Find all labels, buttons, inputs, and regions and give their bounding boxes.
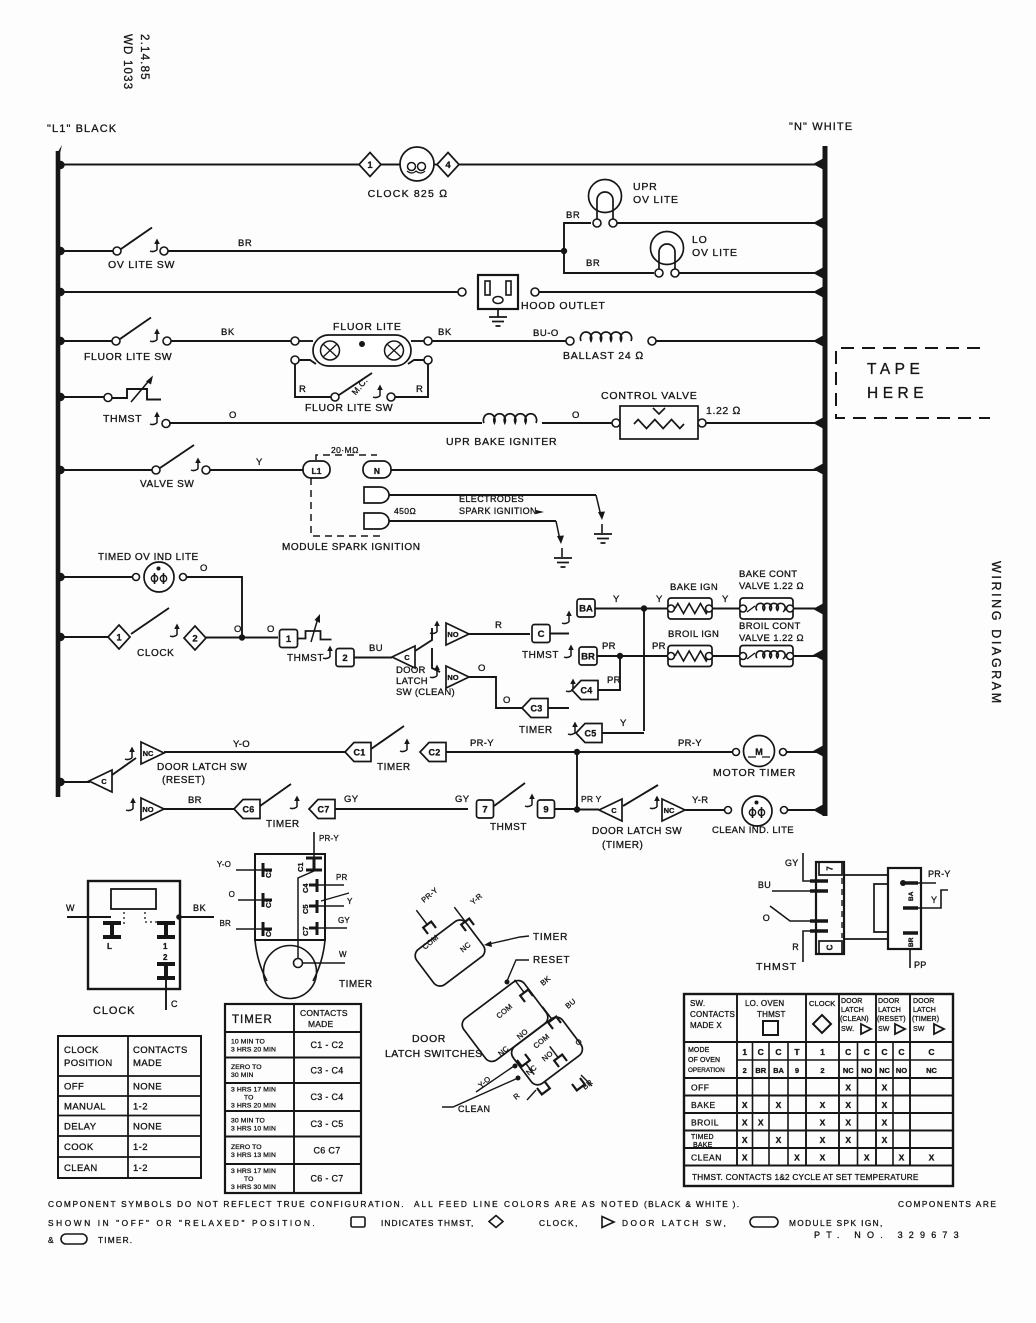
label DOOR LATCH SW RESET xyxy=(157,762,247,786)
svg-text:CLOCK 825 Ω: CLOCK 825 Ω xyxy=(368,188,449,200)
svg-text:BK: BK xyxy=(438,327,452,338)
svg-text:C3 - C4: C3 - C4 xyxy=(310,1065,343,1075)
clock contact L xyxy=(103,923,121,951)
svg-text:OV LITE: OV LITE xyxy=(692,247,738,259)
svg-text:MADE X: MADE X xyxy=(690,1021,722,1030)
label TIMER c3 xyxy=(519,725,553,736)
svg-text:THMST: THMST xyxy=(103,413,142,425)
clock motor (CLOCK 825 ohm) xyxy=(400,147,434,181)
svg-text:C2: C2 xyxy=(428,748,440,758)
hook NC reset xyxy=(125,747,135,760)
label GY 7 xyxy=(455,794,470,805)
svg-text:CONTACTS: CONTACTS xyxy=(133,1045,188,1056)
label BR lo xyxy=(586,258,600,269)
reset latch tab BU xyxy=(539,997,578,1029)
svg-text:COMPONENT SYMBOLS DO NOT REFLE: COMPONENT SYMBOLS DO NOT REFLECT TRUE CO… xyxy=(48,1199,405,1209)
svg-text:C: C xyxy=(611,806,617,815)
wire L1 to reset C xyxy=(60,781,90,783)
svg-text:MODULE SPARK IGNITION: MODULE SPARK IGNITION xyxy=(282,542,421,553)
door latch sw clean (C triangle) xyxy=(392,646,415,668)
label R left xyxy=(299,384,306,395)
svg-text:CLOCK: CLOCK xyxy=(137,648,174,659)
notes line 3 xyxy=(48,1234,133,1245)
thmst wire PR-Y xyxy=(918,869,951,883)
timer contact C1 (hex) xyxy=(345,743,371,762)
bus L1 (left feed line) xyxy=(56,145,62,797)
svg-text:PT. NO. 329673: PT. NO. 329673 xyxy=(814,1230,965,1240)
svg-text:BAKE: BAKE xyxy=(693,1142,713,1149)
wire bake valve to N bus xyxy=(793,608,823,610)
svg-text:C: C xyxy=(898,1047,904,1057)
svg-text:NC: NC xyxy=(926,1066,937,1075)
label LO OV LITE xyxy=(692,234,738,259)
label O c3 xyxy=(503,695,511,706)
svg-text:TIMER: TIMER xyxy=(232,1014,273,1026)
svg-text:C: C xyxy=(928,1047,934,1057)
wire NC to C1 xyxy=(164,751,345,753)
hook C2 xyxy=(400,739,410,752)
svg-text:C5: C5 xyxy=(301,904,310,914)
label UPR BAKE IGNITER xyxy=(446,436,557,448)
svg-text:THMST: THMST xyxy=(757,1010,786,1019)
svg-text:THMST. CONTACTS 1&2 CYCLE AT S: THMST. CONTACTS 1&2 CYCLE AT SET TEMPERA… xyxy=(692,1173,919,1182)
svg-text:C: C xyxy=(775,1047,781,1057)
timer component body xyxy=(255,854,325,999)
label CLEAN pointer xyxy=(442,1076,521,1115)
junction left bus y577 xyxy=(56,573,64,581)
lamp UPR OV LITE xyxy=(589,180,622,228)
label FLUOR LITE SW left xyxy=(84,351,172,363)
svg-text:1-2: 1-2 xyxy=(133,1163,148,1174)
hook 9 xyxy=(525,794,535,807)
wire 9 to junction xyxy=(554,808,577,810)
svg-text:CLEAN: CLEAN xyxy=(691,1152,722,1162)
sheet id text 2.14.85 WD 1033 xyxy=(121,34,150,90)
label MODULE SPARK IGNITION xyxy=(282,542,421,553)
svg-text:(CLEAN): (CLEAN) xyxy=(840,1016,869,1023)
hook NO2 xyxy=(430,665,440,678)
svg-text:(TIMER): (TIMER) xyxy=(912,1016,939,1023)
door latch timer switch body xyxy=(412,917,488,989)
svg-text:GY: GY xyxy=(344,794,359,805)
timer contact C4 (hex) xyxy=(572,681,598,700)
clean latch tab R xyxy=(512,1082,550,1102)
svg-text:C: C xyxy=(845,1047,851,1057)
svg-text:Y-O: Y-O xyxy=(217,860,231,869)
svg-text:ALL FEED LINE COLORS ARE AS NO: ALL FEED LINE COLORS ARE AS NOTED xyxy=(414,1199,640,1209)
svg-text:BAKE IGN: BAKE IGN xyxy=(670,582,718,593)
svg-text:2: 2 xyxy=(163,953,168,962)
wire NO1 to C box xyxy=(469,633,530,635)
wire tee up to UPR lamp line xyxy=(564,223,591,251)
label TIMED OV IND LITE xyxy=(98,552,199,563)
junction left bus y165 xyxy=(56,161,64,169)
label BR upr xyxy=(566,210,580,221)
svg-text:TIMED OV IND LITE: TIMED OV IND LITE xyxy=(98,552,199,563)
svg-text:VALVE 1.22 Ω: VALVE 1.22 Ω xyxy=(739,633,804,644)
svg-text:GY: GY xyxy=(785,858,799,868)
module electrode output 2 xyxy=(364,513,389,529)
wire fluor loop right xyxy=(395,364,428,397)
label BROIL CONT VALVE xyxy=(739,621,804,644)
thmst contact 7 (box) xyxy=(477,800,494,818)
ground electrode 2 xyxy=(554,548,572,567)
svg-text:PR Y: PR Y xyxy=(581,794,602,804)
svg-text:WD 1033: WD 1033 xyxy=(121,34,133,90)
switch 7-9 blade xyxy=(494,783,525,806)
svg-text:X: X xyxy=(845,1135,851,1145)
svg-text:C3 - C5: C3 - C5 xyxy=(310,1119,343,1129)
wire motor to N bus xyxy=(786,751,823,753)
svg-text:7: 7 xyxy=(826,866,835,871)
wire LO lamp to N bus xyxy=(679,272,823,274)
svg-text:X: X xyxy=(776,1135,782,1145)
svg-text:NC: NC xyxy=(143,749,154,758)
thmst comp right block xyxy=(874,868,921,949)
svg-text:MANUAL: MANUAL xyxy=(64,1101,106,1112)
svg-text:DOOR LATCH SW: DOOR LATCH SW xyxy=(592,826,682,837)
svg-text:PR: PR xyxy=(652,641,666,652)
timer wire PR-Y top xyxy=(314,832,339,857)
svg-text:X: X xyxy=(742,1135,748,1145)
svg-text:LATCH: LATCH xyxy=(396,676,428,687)
svg-text:X: X xyxy=(882,1100,888,1110)
wire clock2 to node O xyxy=(206,637,278,639)
timer latch pointer xyxy=(484,936,529,947)
wire VALVE SW to L1 terminal xyxy=(210,469,303,471)
timer latch label COM xyxy=(421,933,441,952)
junction left bus y292 xyxy=(56,288,64,296)
spark gap arrow 1 xyxy=(596,495,605,520)
svg-text:Y: Y xyxy=(722,594,729,605)
thmst wire R xyxy=(792,931,810,962)
svg-text:X: X xyxy=(882,1082,888,1092)
label PR-Y motor xyxy=(678,738,702,749)
hook C5 xyxy=(568,722,578,735)
wire C5 to bake junction xyxy=(602,732,644,734)
svg-text:3 HRS 30 MIN: 3 HRS 30 MIN xyxy=(231,1184,276,1191)
svg-text:(RESET): (RESET) xyxy=(162,775,206,786)
junction right bus y810 xyxy=(813,805,823,816)
timer contact C3 comp xyxy=(229,890,273,908)
svg-text:N: N xyxy=(374,466,380,476)
label 1.22 ohm xyxy=(706,405,741,417)
thmst comp left block xyxy=(816,862,844,954)
label 450 ohm xyxy=(394,506,416,516)
svg-text:OF OVEN: OF OVEN xyxy=(688,1057,720,1064)
junction left bus y397 xyxy=(56,393,64,401)
svg-text:2: 2 xyxy=(342,653,347,664)
hook clock 2 xyxy=(170,624,180,637)
svg-text:UPR BAKE IGNITER: UPR BAKE IGNITER xyxy=(446,436,557,448)
svg-text:X: X xyxy=(820,1117,826,1127)
svg-text:X: X xyxy=(776,1100,782,1110)
clock position table xyxy=(58,1036,201,1178)
svg-text:9: 9 xyxy=(795,1066,799,1075)
svg-text:L1: L1 xyxy=(312,466,322,476)
svg-text:1: 1 xyxy=(367,160,373,171)
wire clock 1 to motor xyxy=(381,164,400,166)
svg-text:LATCH: LATCH xyxy=(913,1007,936,1014)
svg-text:Y: Y xyxy=(347,897,353,906)
label TIMER pointer xyxy=(533,932,568,943)
clock contact 2 (diamond) xyxy=(184,626,206,650)
label DOOR LATCH SWITCHES xyxy=(385,1033,483,1060)
junction right bus y469 xyxy=(813,464,823,475)
label Y-R xyxy=(692,795,708,806)
wire C box to stub xyxy=(550,633,569,635)
reset latch tab NC xyxy=(517,1054,538,1078)
label BK right xyxy=(438,327,452,338)
label CLOCK comp xyxy=(93,1005,135,1017)
svg-text:MADE: MADE xyxy=(133,1058,162,1069)
svg-text:ZERO TO: ZERO TO xyxy=(231,1064,262,1071)
svg-text:1: 1 xyxy=(820,1047,825,1057)
svg-text:C6: C6 xyxy=(242,805,254,815)
thmst contact 9 (box) xyxy=(538,800,555,818)
node BR tee xyxy=(561,248,567,254)
svg-text:NO: NO xyxy=(447,673,458,682)
ground electrode 1 xyxy=(594,524,612,543)
svg-text:3 HRS 17 MIN: 3 HRS 17 MIN xyxy=(231,1168,276,1175)
node bake junction xyxy=(641,605,647,611)
svg-text:OFF: OFF xyxy=(64,1082,84,1093)
svg-text:BALLAST 24 Ω: BALLAST 24 Ω xyxy=(563,350,644,362)
label O 2 xyxy=(572,410,580,421)
switch clock blade xyxy=(131,608,169,634)
svg-text:OV LITE: OV LITE xyxy=(633,194,679,206)
wire electrode 1 xyxy=(389,494,596,496)
wire FLUOR LITE SW to tube xyxy=(171,340,291,342)
svg-text:CLOCK,: CLOCK, xyxy=(539,1218,579,1228)
svg-text:TIMER: TIMER xyxy=(519,725,553,736)
svg-text:O: O xyxy=(200,563,208,574)
svg-text:Y: Y xyxy=(613,594,620,605)
wire NC to clean lamp xyxy=(685,809,724,811)
reset latch label NC xyxy=(496,1044,511,1058)
wire clock 4 to N bus xyxy=(459,164,823,166)
svg-text:CONTACTS: CONTACTS xyxy=(690,1010,735,1019)
wire timed lamp to corner xyxy=(186,577,242,635)
label BROIL IGN xyxy=(668,629,719,640)
vertical label WIRING DIAGRAM xyxy=(989,561,1003,706)
timer contacts table xyxy=(225,1004,361,1193)
inductor BALLAST 24 ohm xyxy=(566,332,656,345)
svg-text:2: 2 xyxy=(192,634,197,645)
thmst contact C (box) xyxy=(532,625,550,643)
label PR-Y c2 xyxy=(470,738,494,749)
label BAKE CONT VALVE xyxy=(739,569,804,592)
junction left bus y470 xyxy=(56,466,64,474)
junction right bus y164 xyxy=(813,159,823,170)
svg-text:Y-O: Y-O xyxy=(233,739,250,750)
svg-text:INDICATES THMST,: INDICATES THMST, xyxy=(381,1218,474,1228)
svg-text:FLUOR LITE SW: FLUOR LITE SW xyxy=(305,402,393,414)
svg-text:C: C xyxy=(864,1047,870,1057)
label BR wire xyxy=(238,238,252,249)
thmst comp block links xyxy=(844,875,888,939)
wire UPR lamp to N bus xyxy=(617,222,823,224)
node row10 junction xyxy=(574,806,580,812)
svg-text:TIMER.: TIMER. xyxy=(98,1235,133,1245)
svg-text:C5: C5 xyxy=(584,729,596,739)
clean latch label COM xyxy=(532,1032,552,1051)
wire NO2 to C3 xyxy=(469,677,522,708)
thmst contact 1 (box) xyxy=(280,630,298,648)
door latch reset switch body xyxy=(459,977,551,1064)
switch FLUOR LITE SW xyxy=(112,318,171,346)
inductor UPR BAKE IGNITER xyxy=(483,414,536,423)
clock contact 1 comp xyxy=(157,923,175,951)
clock contact 1 (diamond) xyxy=(359,153,381,177)
svg-text:BU-O: BU-O xyxy=(533,328,559,339)
svg-text:UPR: UPR xyxy=(633,181,658,193)
label Y ba2 xyxy=(656,594,663,605)
svg-text:MODULE SPK IGN,: MODULE SPK IGN, xyxy=(789,1218,884,1228)
timer contact C4 comp xyxy=(301,873,348,893)
svg-text:SW: SW xyxy=(913,1026,925,1033)
clock component outline xyxy=(88,881,180,989)
label CLEAN IND LITE xyxy=(712,825,794,836)
svg-text:Y: Y xyxy=(656,594,663,605)
timer latch tab PR-Y xyxy=(412,886,439,934)
svg-text:X: X xyxy=(820,1135,826,1145)
junction left bus y341 xyxy=(56,337,64,345)
wire L1 to clock contacts xyxy=(60,164,359,166)
svg-text:C6 C7: C6 C7 xyxy=(313,1145,340,1155)
label 20+M ohm xyxy=(331,445,359,455)
svg-text:PP: PP xyxy=(914,960,927,970)
label DOOR LATCH SW TIMER xyxy=(592,826,682,851)
label O clock a xyxy=(234,624,242,635)
svg-text:HERE: HERE xyxy=(867,385,928,402)
svg-text:C6 - C7: C6 - C7 xyxy=(310,1174,343,1184)
label Y ba3 xyxy=(722,594,729,605)
label Y valve xyxy=(256,457,263,468)
junction left bus y782 xyxy=(56,778,64,786)
wire THMST to igniter xyxy=(169,422,482,424)
svg-text:SW.: SW. xyxy=(690,999,705,1008)
hook thmst2 xyxy=(323,646,333,659)
hook BR xyxy=(564,645,574,658)
label TIMER comp xyxy=(339,979,373,990)
svg-text:BU: BU xyxy=(369,643,383,654)
label THMST comp xyxy=(756,961,797,973)
svg-text:TIMER: TIMER xyxy=(533,932,568,943)
hook C4 xyxy=(566,679,576,692)
wire tube to ballast xyxy=(432,340,566,342)
svg-text:7: 7 xyxy=(482,805,487,816)
svg-text:OFF: OFF xyxy=(691,1082,710,1092)
timer contact C7 comp xyxy=(301,916,350,936)
wire clean sw to NO contacts xyxy=(415,628,440,672)
thmst wire BU xyxy=(758,880,810,891)
clean latch tab BR xyxy=(572,1075,595,1092)
control valve CONTROL VALVE 1.22 xyxy=(612,406,706,439)
wire C2 to motor xyxy=(446,751,732,753)
svg-text:C7: C7 xyxy=(317,805,329,815)
svg-text:"L1" BLACK: "L1" BLACK xyxy=(47,123,117,135)
svg-text:R: R xyxy=(495,620,502,631)
svg-text:RESET: RESET xyxy=(533,955,570,966)
door latch reset NC contact (triangle) xyxy=(141,742,164,764)
module electrode output 1 xyxy=(364,487,389,503)
junction right bus y423 xyxy=(813,418,823,429)
wire NO to C6 xyxy=(164,808,234,810)
svg-text:CLOCK: CLOCK xyxy=(93,1005,135,1017)
wire L1 to hood outlet xyxy=(60,291,458,293)
wire junction down row10 xyxy=(576,752,578,810)
svg-text:SW.: SW. xyxy=(841,1026,854,1033)
svg-text:BA: BA xyxy=(773,1066,784,1075)
svg-text:X: X xyxy=(845,1117,851,1127)
timer contact C3 (hex) xyxy=(522,699,548,718)
svg-text:R: R xyxy=(416,384,423,395)
svg-text:3 HRS 10 MIN: 3 HRS 10 MIN xyxy=(231,1125,276,1132)
svg-text:C: C xyxy=(881,1047,887,1057)
module terminal N xyxy=(363,461,391,478)
svg-text:THMST: THMST xyxy=(756,961,797,973)
thmst wire GY xyxy=(785,853,810,881)
resistor BAKE IGN xyxy=(668,598,713,619)
thermostat THMST row8 xyxy=(297,614,332,642)
timer latch label NC xyxy=(458,940,473,954)
wire box2 to door latch clean xyxy=(354,657,392,659)
svg-text:Y: Y xyxy=(620,718,627,729)
door latch timer NC contact (triangle) xyxy=(662,799,685,821)
wire hood outlet to N bus xyxy=(539,291,823,293)
switch C6-C7 blade xyxy=(260,784,291,806)
wire broil ign to valve xyxy=(712,655,740,657)
reset latch label COM xyxy=(495,1002,515,1021)
svg-text:10 MIN TO: 10 MIN TO xyxy=(231,1038,265,1045)
hook BA xyxy=(562,611,572,624)
svg-text:C: C xyxy=(826,944,835,950)
svg-text:DOOR: DOOR xyxy=(913,998,934,1005)
wire bake junction down to C5 xyxy=(643,609,645,732)
svg-text:X: X xyxy=(820,1152,826,1162)
svg-text:C: C xyxy=(538,629,545,640)
svg-text:NO: NO xyxy=(861,1066,872,1075)
label O 1 xyxy=(229,410,237,421)
svg-text:C7: C7 xyxy=(301,926,310,936)
wire clean lamp to N bus xyxy=(787,809,823,811)
svg-text:ELECTRODES: ELECTRODES xyxy=(459,494,524,504)
svg-text:ZERO TO: ZERO TO xyxy=(231,1144,262,1151)
svg-text:(TIMER): (TIMER) xyxy=(602,840,643,851)
motor MOTOR TIMER xyxy=(733,736,787,767)
svg-text:T: T xyxy=(794,1047,800,1057)
label BR row10 xyxy=(188,795,202,806)
svg-text:WIRING DIAGRAM: WIRING DIAGRAM xyxy=(989,561,1003,706)
label Y-O xyxy=(233,739,250,750)
label RESET pointer xyxy=(505,955,571,985)
label BAKE IGN xyxy=(670,582,718,593)
switch fluor M.C. xyxy=(331,373,395,401)
svg-text:C: C xyxy=(101,777,107,786)
svg-text:X: X xyxy=(794,1152,800,1162)
wire BR to broil ign xyxy=(597,655,668,657)
svg-text:X: X xyxy=(758,1117,764,1127)
svg-text:SW: SW xyxy=(878,1026,890,1033)
svg-text:DOOR: DOOR xyxy=(396,665,426,676)
timer contact C5 comp xyxy=(301,893,353,914)
svg-text:(RESET): (RESET) xyxy=(877,1016,906,1023)
hook C7 xyxy=(290,796,300,809)
door latch reset C contact (triangle) xyxy=(89,770,112,792)
svg-text:C3 - C4: C3 - C4 xyxy=(310,1092,343,1102)
svg-text:C: C xyxy=(171,999,178,1009)
